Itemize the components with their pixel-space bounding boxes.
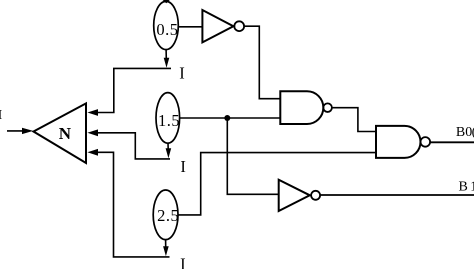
wire U2 output to NAND U3 top input <box>332 108 376 132</box>
svg-text:I: I <box>180 254 186 269</box>
inverter U4 (bottom) <box>279 180 320 211</box>
svg-text:1: 1 <box>470 180 474 195</box>
NAND gate U2 <box>280 91 332 124</box>
amplifier N <box>34 103 87 163</box>
input wire with arrow into N <box>7 128 33 134</box>
net B1 output wire <box>320 194 474 196</box>
junction dot <box>224 115 230 121</box>
wire junction down to inverter U4 input <box>227 118 278 194</box>
down arrow from 0.5 to node I <box>164 50 170 68</box>
svg-text:I: I <box>180 157 186 176</box>
svg-text:N: N <box>59 124 72 143</box>
inverter U1 (top) <box>202 10 244 42</box>
NAND gate U3 <box>376 126 430 158</box>
wire from 1.5 node to N (middle) <box>87 129 170 159</box>
svg-text:0.5: 0.5 <box>156 20 178 39</box>
wire 0.5 to inverter U1 <box>178 26 202 28</box>
wire 2.5 up to NAND U3 bottom input <box>178 153 376 215</box>
wire from 2.5 node to N (bottom) <box>87 149 169 257</box>
svg-text:I: I <box>0 108 3 123</box>
svg-text:B: B <box>459 180 468 195</box>
wire U1 output to NAND U2 top input <box>244 26 280 99</box>
threshold ellipse 0.5 <box>154 1 179 49</box>
threshold ellipse 2.5 <box>153 190 179 240</box>
down arrow from 2.5 to node I <box>163 240 169 257</box>
svg-text:1.5: 1.5 <box>158 111 180 130</box>
wire 1.5 to NAND U2 bottom input <box>180 117 281 119</box>
svg-text:I: I <box>179 64 185 83</box>
threshold ellipse 1.5 <box>156 93 180 144</box>
svg-text:B0: B0 <box>456 125 472 140</box>
net B0 output wire <box>430 141 474 143</box>
down arrow from 1.5 to node I <box>166 143 172 158</box>
svg-text:2.5: 2.5 <box>157 206 179 225</box>
cropped arrowhead above ellipse 0.5 <box>163 0 170 3</box>
wire from 0.5 node to N (top) <box>87 68 171 116</box>
